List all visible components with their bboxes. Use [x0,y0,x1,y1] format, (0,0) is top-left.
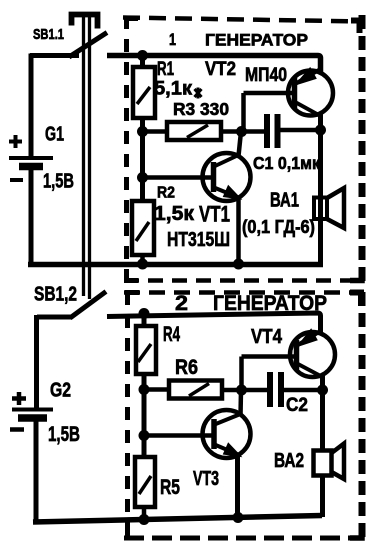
battery G2 minus sign [10,427,24,432]
battery G2 plus sign [12,392,26,405]
wire left rail gen1 [140,56,145,203]
svg-text:С1 0,1мк: С1 0,1мк [253,153,320,173]
svg-text:R4: R4 [163,323,180,346]
svg-text:5,1к: 5,1к [154,79,193,100]
resistor R6 [169,381,222,399]
node VT3 emitter junction [233,512,244,523]
speaker BA2 [314,451,332,476]
wire top rail gen1 [107,56,321,74]
resistor R2 [132,201,154,255]
transistor VT2 [288,71,333,116]
svg-text:(0,1 ГД-6): (0,1 ГД-6) [242,217,315,237]
svg-text:VТ4: VТ4 [251,326,283,348]
wire VT4 emitter down to speaker [320,375,325,517]
wire R3 left [143,129,169,134]
resistor R1 [133,67,155,118]
switch SB1.1 lever [69,33,107,58]
SECTION: generator 2 circuit [33,308,344,525]
wire left rail gen2 [142,315,147,458]
capacitor C1 [264,114,270,148]
transistor VT4 [290,332,335,377]
wire VT2 collector down to speaker [318,112,323,264]
svg-text:МП40: МП40 [245,65,287,86]
box generator 2 top-right corner [350,293,361,307]
transistor VT1 [203,153,251,201]
SECTION: generator 1 circuit [28,50,344,270]
wire VT4 base down [239,357,244,391]
asterisk mark [195,88,202,99]
box generator 1 bottom-left corner [127,269,139,281]
box generator 1 left border [124,16,129,282]
svg-text:G1: G1 [45,124,64,146]
node C1 right junction [315,125,326,136]
battery G1 minus sign [10,178,23,182]
node C2 left junction [236,385,247,396]
box generator 1 top border [123,18,364,22]
box generator 2 right border [359,292,366,538]
svg-text:R6: R6 [175,356,198,379]
resistor R4 [136,326,156,374]
wire VT4 base [242,354,296,359]
wire G1 left down [29,54,34,157]
speaker BA1 [314,198,327,220]
box generator 2 bottom border [124,536,364,541]
svg-text:R2: R2 [157,185,175,202]
box generator 1 bottom border [124,278,364,283]
node top rail gen2 junction [139,308,150,319]
node VT1 collector junction [236,126,247,137]
svg-text:1,5к: 1,5к [154,203,195,225]
node top rail left junction [137,50,148,61]
wire R5 bottom [142,507,147,520]
node C2 right junction [317,385,328,396]
node R5 bottom junction [139,514,150,525]
wire R6 left [144,387,170,392]
wire VT3 base [144,433,212,438]
wire VT2 base [244,91,294,96]
battery G2 negative plate [18,414,47,422]
capacitor C2 [267,372,273,407]
switch SB1.2 lever [70,292,106,319]
transistor VT3 [203,410,251,458]
SECTION: generator 2 dashed box [124,291,364,538]
svg-text:VТ1: VТ1 [199,202,230,227]
wire vertical pair right [88,16,91,299]
box generator 2 bottom-right corner [350,525,362,538]
box generator 1 bottom-right corner [350,268,362,281]
svg-text:2: 2 [175,291,188,315]
battery G1 positive plate [9,156,53,160]
node VT3 base junction [139,430,150,441]
svg-text:НТ315Ш: НТ315Ш [167,229,230,251]
wire VT3 emitter down [235,454,240,518]
svg-text:R3 330: R3 330 [173,99,229,119]
wire bottom rail gen1 [28,262,323,268]
svg-text:ВА2: ВА2 [274,450,304,472]
node VT1 base junction [137,172,148,183]
wire VT1 base [143,175,213,180]
resistor R3 [167,122,221,140]
SECTION: generator 1 dashed box [123,15,364,282]
battery G1 negative plate [19,163,43,171]
wire bottom rail gen2 [33,516,322,523]
svg-text:1,5В: 1,5В [43,171,74,193]
SECTION: left battery column [9,15,107,523]
wire G1 minus down [29,169,34,266]
wire VT1 collector up [239,132,242,157]
box generator 2 top-left corner [128,293,140,305]
svg-text:VТ2: VТ2 [205,59,236,80]
wire G2 minus down [34,421,39,522]
svg-text:G2: G2 [50,380,71,402]
box generator 2 top border [124,290,364,295]
wire R2 bottom [140,255,145,264]
wire G2 left down [34,315,39,408]
node R3 left junction [137,126,148,137]
switch SB1.1 fixed contact cap [72,15,98,29]
wire G2 plus to SB1.2 [37,315,72,320]
wire R3 right to C1 [221,129,265,134]
box generator 2 left border [125,292,130,538]
box generator 1 right border [359,15,366,281]
box generator 2 bottom-left corner [128,525,140,538]
wire vertical pair left [82,16,85,296]
box generator 1 top-right corner [351,21,360,34]
svg-text:ГЕНЕРАТОР: ГЕНЕРАТОР [205,32,308,50]
wire VT1 emitter down [236,196,241,264]
box generator 1 top-left corner [127,19,139,30]
svg-text:1,5В: 1,5В [48,423,80,446]
svg-text:ВА1: ВА1 [270,190,299,212]
wire VT2 base down to node [241,93,246,132]
wire C1 right to VT2 emitter line [281,128,322,133]
wire VT3 collector up [238,390,243,416]
svg-text:SB1.1: SB1.1 [33,26,64,43]
svg-text:R5: R5 [160,476,180,499]
node R6 left junction [139,384,150,395]
node VT1 emitter junction [233,259,244,270]
wire G1 plus to SB1.1 [30,53,79,58]
resistor R5 [135,457,155,507]
svg-text:1: 1 [169,30,176,49]
wire R6 right to C2 [222,388,267,393]
battery G1 plus sign [9,135,22,148]
svg-text:VТ3: VТ3 [193,468,219,490]
battery G2 positive plate [12,408,53,412]
wire top rail gen2 [107,313,321,334]
node R2 bottom junction [137,259,148,270]
svg-text:SB1,2: SB1,2 [34,284,77,306]
svg-text:С2: С2 [286,395,308,416]
wire C2 right [284,388,323,393]
svg-text:R1: R1 [157,59,174,80]
